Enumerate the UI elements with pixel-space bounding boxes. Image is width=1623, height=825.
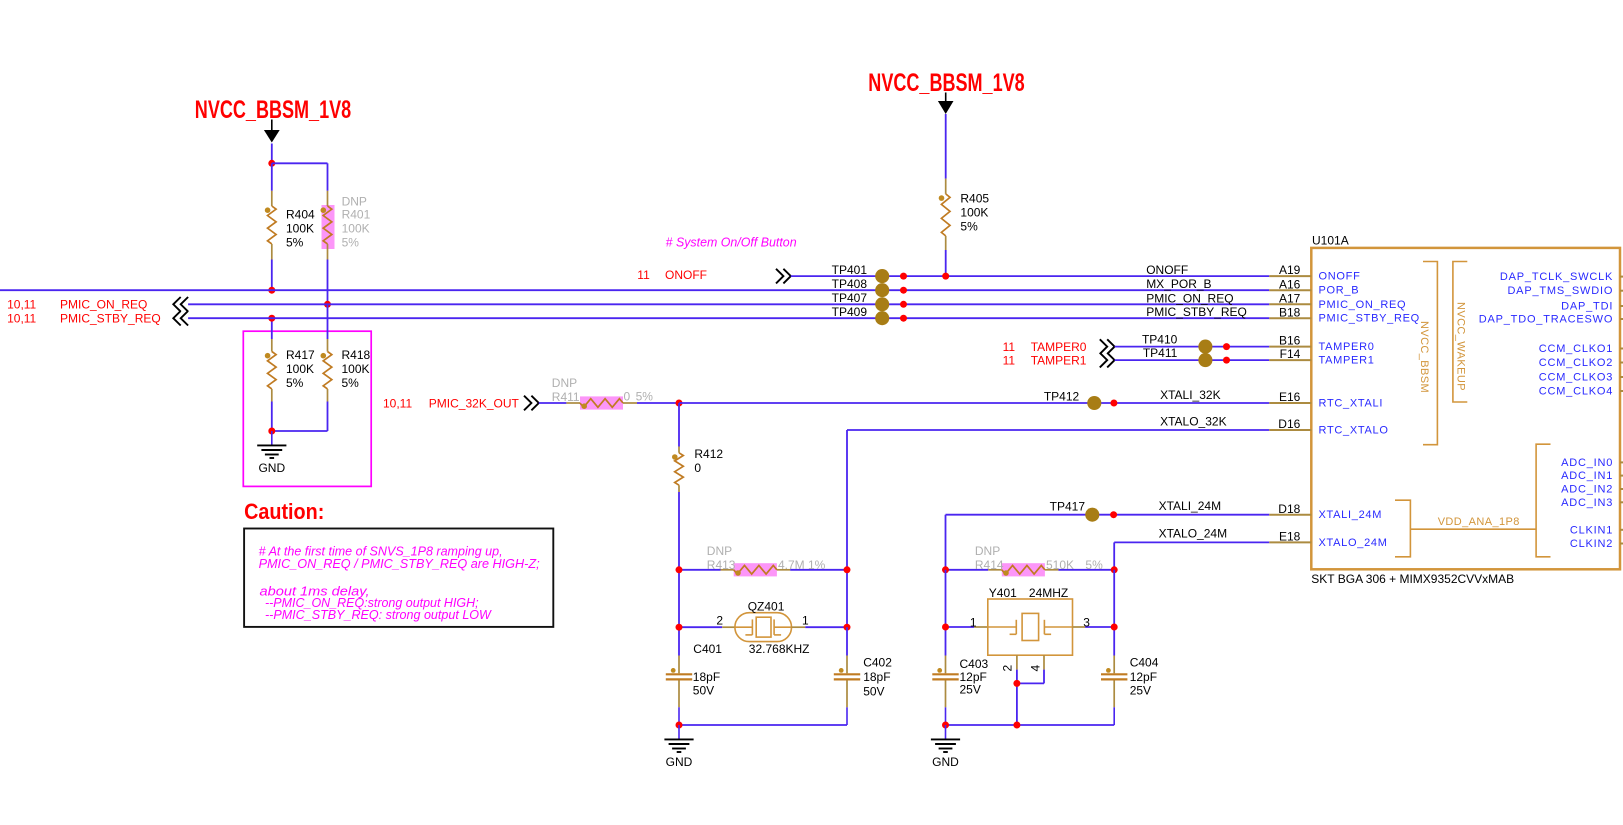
- svg-text:ONOFF: ONOFF: [1319, 271, 1361, 283]
- svg-text:E18: E18: [1279, 530, 1301, 544]
- node GND junction: [268, 428, 275, 435]
- svg-text:TP412: TP412: [1044, 390, 1080, 404]
- svg-text:D16: D16: [1278, 417, 1300, 431]
- net MX_POR_B wire: [0, 289, 1269, 291]
- port chevron TAMPER0: [1100, 339, 1115, 354]
- svg-text:R417: R417: [286, 348, 315, 362]
- net PMIC_STBY_REQ wire: [188, 317, 1269, 319]
- svg-text:510K: 510K: [1046, 558, 1074, 572]
- svg-text:XTALO_24M: XTALO_24M: [1319, 537, 1388, 549]
- pin A16 POR_B: [1269, 289, 1311, 291]
- svg-text:U101A: U101A: [1312, 234, 1349, 248]
- net TAMPER1 wire: [1115, 359, 1270, 361]
- svg-text:TP409: TP409: [832, 305, 868, 319]
- svg-text:A17: A17: [1279, 291, 1301, 305]
- svg-text:1: 1: [970, 616, 977, 630]
- svg-text:NVCC_BBSM: NVCC_BBSM: [1418, 321, 1430, 393]
- capacitor C401: [678, 656, 680, 674]
- pin DAP_TMS_SWDIO: [1620, 290, 1623, 292]
- svg-text:A19: A19: [1279, 263, 1301, 277]
- svg-text:C404: C404: [1130, 656, 1159, 670]
- svg-text:XTALI_24M: XTALI_24M: [1319, 509, 1383, 521]
- svg-text:DAP_TDO_TRACESWO: DAP_TDO_TRACESWO: [1479, 314, 1613, 326]
- svg-text:NVCC_BBSM_1V8: NVCC_BBSM_1V8: [868, 69, 1024, 97]
- svg-text:R418: R418: [342, 348, 371, 362]
- svg-text:PMIC_ON_REQ: PMIC_ON_REQ: [1319, 299, 1407, 311]
- pin A19 ONOFF: [1269, 275, 1311, 277]
- svg-text:2: 2: [1001, 665, 1015, 672]
- svg-text:ONOFF: ONOFF: [665, 268, 707, 282]
- wire NVCC rail to junction: [271, 144, 273, 164]
- svg-text:CLKIN2: CLKIN2: [1570, 538, 1613, 550]
- pin DAP_TDI: [1620, 305, 1623, 307]
- svg-text:GND: GND: [666, 755, 693, 769]
- pin E18 XTALO_24M: [1269, 541, 1311, 543]
- svg-text:XTALO_24M: XTALO_24M: [1159, 526, 1227, 540]
- port chevron PMIC_32K_OUT: [524, 396, 539, 411]
- svg-text:PMIC_STBY_REQ: PMIC_STBY_REQ: [60, 312, 161, 326]
- svg-text:GND: GND: [932, 755, 959, 769]
- pin CCM_CLKO1: [1620, 348, 1623, 350]
- pin E16 RTC_XTALI: [1269, 402, 1311, 404]
- svg-text:DNP: DNP: [975, 544, 1000, 558]
- svg-text:R405: R405: [960, 191, 989, 205]
- svg-text:A16: A16: [1279, 277, 1301, 291]
- crystal QZ401: [679, 626, 722, 628]
- svg-text:B18: B18: [1279, 305, 1301, 319]
- node R417/PMIC_STBY_REQ junction: [268, 315, 275, 322]
- svg-text:100K: 100K: [960, 205, 988, 219]
- svg-text:R412: R412: [694, 447, 723, 461]
- svg-text:ADC_IN0: ADC_IN0: [1561, 457, 1613, 469]
- svg-text:11: 11: [637, 268, 650, 282]
- svg-text:NVCC_BBSM_1V8: NVCC_BBSM_1V8: [195, 96, 351, 124]
- svg-text:D18: D18: [1278, 502, 1300, 516]
- pin A17 PMIC_ON_REQ: [1269, 303, 1311, 305]
- svg-text:R404: R404: [286, 208, 315, 222]
- node R414 left junction: [942, 566, 949, 573]
- port chevron TAMPER1: [1100, 353, 1115, 368]
- svg-text:10,11: 10,11: [7, 312, 36, 326]
- svg-text:R411: R411: [552, 390, 580, 404]
- svg-text:R414: R414: [975, 558, 1004, 572]
- svg-text:4: 4: [1029, 665, 1043, 672]
- pin CCM_CLKO3: [1620, 376, 1623, 378]
- svg-text:TP401: TP401: [832, 263, 868, 277]
- svg-text:XTALO_32K: XTALO_32K: [1160, 415, 1226, 429]
- svg-text:POR_B: POR_B: [1319, 285, 1360, 297]
- net ONOFF wire: [791, 275, 1270, 277]
- svg-text:E16: E16: [1279, 390, 1301, 404]
- node Y401 pin3 junction: [1111, 624, 1118, 631]
- svg-text:ONOFF: ONOFF: [1146, 263, 1188, 277]
- svg-text:5%: 5%: [342, 236, 360, 250]
- crystal Y401: [945, 570, 947, 656]
- node 24M rail/GND junction: [942, 722, 949, 729]
- svg-text:DAP_TMS_SWDIO: DAP_TMS_SWDIO: [1507, 285, 1613, 297]
- svg-text:ADC_IN1: ADC_IN1: [1561, 470, 1613, 482]
- resistor R401 (DNP): [322, 205, 335, 249]
- svg-text:DNP: DNP: [707, 544, 732, 558]
- svg-text:PMIC_STBY_REQ: PMIC_STBY_REQ: [1319, 313, 1420, 325]
- svg-text:100K: 100K: [342, 362, 370, 376]
- svg-text:5%: 5%: [286, 376, 304, 390]
- svg-text:100K: 100K: [286, 362, 314, 376]
- svg-text:PMIC_32K_OUT: PMIC_32K_OUT: [429, 396, 520, 410]
- resistor R412: [678, 403, 680, 447]
- svg-text:2: 2: [716, 614, 723, 628]
- svg-text:VDD_ANA_1P8: VDD_ANA_1P8: [1438, 516, 1520, 528]
- pin CLKIN1: [1620, 529, 1623, 531]
- svg-text:Caution:: Caution:: [244, 499, 324, 524]
- svg-text:PMIC_ON_REQ: PMIC_ON_REQ: [60, 298, 147, 312]
- pin DAP_TCLK_SWCLK: [1620, 276, 1623, 278]
- svg-text:CCM_CLKO4: CCM_CLKO4: [1539, 386, 1613, 398]
- capacitor C402: [846, 627, 848, 655]
- svg-text:TP408: TP408: [832, 277, 868, 291]
- node R411/R412/XTALI_32K junction: [676, 400, 683, 407]
- net XTALO_24M wire: [1114, 541, 1269, 543]
- resistor R404: [271, 163, 273, 191]
- node NVCC junction: [268, 160, 275, 167]
- wire 24M ground rail: [946, 724, 1115, 726]
- svg-text:TAMPER0: TAMPER0: [1319, 341, 1375, 353]
- svg-text:C403: C403: [960, 657, 989, 671]
- svg-text:32.768KHZ: 32.768KHZ: [749, 642, 810, 656]
- svg-text:R401: R401: [342, 208, 371, 222]
- power group bracket NVCC_WAKEUP: [1453, 262, 1467, 403]
- svg-text:CLKIN1: CLKIN1: [1570, 524, 1613, 536]
- svg-text:5%: 5%: [1085, 558, 1103, 572]
- svg-text:GND: GND: [258, 461, 285, 475]
- svg-text:12pF: 12pF: [1130, 670, 1157, 684]
- svg-text:11: 11: [1003, 340, 1016, 354]
- power group bracket VDD_ANA_1P8: [1395, 500, 1410, 557]
- svg-text:B16: B16: [1279, 334, 1301, 348]
- ground (32K): [678, 725, 680, 739]
- net PMIC_ON_REQ wire: [188, 303, 1269, 305]
- pin DAP_TDO_TRACESWO: [1620, 318, 1623, 320]
- wire 32K ground rail: [679, 724, 847, 726]
- port chevron ONOFF: [776, 269, 791, 284]
- pin CCM_CLKO2: [1620, 362, 1623, 364]
- capacitor C403: [945, 656, 947, 674]
- node R413 left junction: [676, 566, 683, 573]
- svg-text:C401: C401: [693, 642, 722, 656]
- svg-text:100K: 100K: [342, 222, 370, 236]
- port chevron PMIC_STBY_REQ: [173, 311, 188, 326]
- pin ADC_IN1: [1620, 475, 1623, 477]
- net XTALI_24M wire: [946, 514, 1270, 516]
- node 32K rail/GND junction: [676, 722, 683, 729]
- pin D16 RTC_XTALO: [1269, 429, 1311, 431]
- svg-text:DNP: DNP: [552, 376, 577, 390]
- svg-text:0: 0: [694, 461, 701, 475]
- svg-text:R413: R413: [707, 558, 736, 572]
- resistor R411 (DNP): [580, 396, 623, 409]
- svg-text:DAP_TDI: DAP_TDI: [1561, 301, 1613, 313]
- svg-text:5%: 5%: [960, 219, 978, 233]
- node crystal pins/rail junction: [1013, 722, 1020, 729]
- svg-text:ADC_IN2: ADC_IN2: [1561, 484, 1613, 496]
- power group bracket NVCC_BBSM: [1423, 262, 1437, 445]
- pin B16 TAMPER0: [1269, 346, 1311, 348]
- svg-text:CCM_CLKO3: CCM_CLKO3: [1539, 372, 1613, 384]
- svg-text:PMIC_ON_REQ / PMIC_STBY_REQ ar: PMIC_ON_REQ / PMIC_STBY_REQ are HIGH-Z;: [259, 556, 540, 571]
- svg-text:--PMIC_STBY_REQ: strong output: --PMIC_STBY_REQ: strong output LOW: [265, 607, 493, 622]
- svg-text:NVCC_WAKEUP: NVCC_WAKEUP: [1455, 302, 1467, 391]
- node QZ401 pin1 junction: [844, 624, 851, 631]
- svg-text:50V: 50V: [863, 685, 884, 699]
- svg-text:1: 1: [802, 614, 809, 628]
- svg-text:C402: C402: [863, 656, 892, 670]
- pin ADC_IN2: [1620, 488, 1623, 490]
- node R401/R418/PMIC_ON_REQ junction: [324, 301, 331, 308]
- svg-text:TP411: TP411: [1143, 346, 1178, 360]
- svg-text:18pF: 18pF: [693, 670, 720, 684]
- node Y401 pin2/4 junction: [1013, 680, 1020, 687]
- svg-text:# System On/Off Button: # System On/Off Button: [666, 234, 797, 249]
- resistor R413 (DNP): [734, 563, 777, 576]
- pin ADC_IN3: [1620, 501, 1623, 503]
- svg-text:TAMPER0: TAMPER0: [1031, 340, 1087, 354]
- svg-text:5%: 5%: [286, 236, 304, 250]
- svg-text:TP410: TP410: [1142, 332, 1178, 346]
- svg-text:SKT BGA 306 + MIMX9352CVVxMAB: SKT BGA 306 + MIMX9352CVVxMAB: [1311, 572, 1514, 586]
- resistor R414 (DNP): [1002, 563, 1045, 576]
- svg-text:50V: 50V: [693, 684, 714, 698]
- svg-text:25V: 25V: [960, 683, 981, 697]
- capacitor C404: [1113, 656, 1115, 674]
- svg-text:10,11: 10,11: [383, 396, 412, 410]
- port chevron PMIC_ON_REQ: [173, 297, 188, 312]
- svg-text:0: 0: [624, 389, 631, 403]
- svg-text:4.7M 1%: 4.7M 1%: [778, 558, 826, 572]
- svg-text:25V: 25V: [1130, 684, 1151, 698]
- node R404/MX_POR_B junction: [268, 287, 275, 294]
- wire NVCC junction to R401 branch: [272, 162, 328, 164]
- svg-text:3: 3: [1083, 616, 1090, 630]
- svg-text:5%: 5%: [636, 389, 654, 403]
- svg-text:CCM_CLKO2: CCM_CLKO2: [1539, 357, 1613, 369]
- svg-text:11: 11: [1003, 353, 1016, 367]
- svg-text:XTALI_32K: XTALI_32K: [1160, 388, 1220, 402]
- svg-text:10,11: 10,11: [7, 298, 36, 312]
- svg-text:MX_POR_B: MX_POR_B: [1146, 277, 1211, 291]
- node QZ401 pin2 junction: [676, 624, 683, 631]
- net XTALI_32K wire: [679, 402, 1269, 404]
- svg-text:TAMPER1: TAMPER1: [1319, 355, 1375, 367]
- node R405/ONOFF junction: [942, 273, 949, 280]
- svg-text:Y401: Y401: [989, 586, 1017, 600]
- node R413 right junction: [844, 566, 851, 573]
- resistor R418: [327, 304, 329, 339]
- pin CLKIN2: [1620, 543, 1623, 545]
- pin D18 XTALI_24M: [1269, 514, 1311, 516]
- wire R417-R418 bottom join: [272, 430, 328, 432]
- svg-text:18pF: 18pF: [863, 670, 890, 684]
- svg-text:QZ401: QZ401: [748, 600, 785, 614]
- caution note box: [244, 529, 553, 627]
- svg-text:TP407: TP407: [832, 291, 868, 305]
- svg-text:TAMPER1: TAMPER1: [1031, 353, 1087, 367]
- svg-text:XTALI_24M: XTALI_24M: [1159, 499, 1221, 513]
- net TAMPER0 wire: [1115, 346, 1270, 348]
- node R414 right junction: [1111, 566, 1118, 573]
- svg-text:DAP_TCLK_SWCLK: DAP_TCLK_SWCLK: [1500, 271, 1613, 283]
- pin CCM_CLKO4: [1620, 390, 1623, 392]
- svg-text:ADC_IN3: ADC_IN3: [1561, 497, 1613, 509]
- svg-text:24MHZ: 24MHZ: [1029, 586, 1068, 600]
- net XTALO_32K wire: [847, 429, 1269, 431]
- svg-text:100K: 100K: [286, 222, 314, 236]
- resistor R405: [945, 114, 947, 179]
- pin B18 PMIC_STBY_REQ: [1269, 317, 1311, 319]
- pin ADC_IN0: [1620, 461, 1623, 463]
- svg-text:RTC_XTALO: RTC_XTALO: [1319, 425, 1389, 437]
- svg-text:PMIC_ON_REQ: PMIC_ON_REQ: [1146, 291, 1233, 305]
- ground (24M): [945, 725, 947, 739]
- svg-text:PMIC_STBY_REQ: PMIC_STBY_REQ: [1146, 305, 1247, 319]
- svg-text:TP417: TP417: [1050, 500, 1086, 514]
- svg-text:CCM_CLKO1: CCM_CLKO1: [1539, 343, 1613, 355]
- magenta highlight box (R417/R418): [243, 331, 371, 486]
- pin F14 TAMPER1: [1269, 359, 1311, 361]
- ground (R417/R418): [271, 431, 273, 445]
- svg-text:F14: F14: [1280, 347, 1301, 361]
- svg-text:5%: 5%: [342, 376, 360, 390]
- resistor R417: [271, 318, 273, 339]
- node Y401 pin1 junction: [942, 624, 949, 631]
- svg-text:RTC_XTALI: RTC_XTALI: [1319, 398, 1384, 410]
